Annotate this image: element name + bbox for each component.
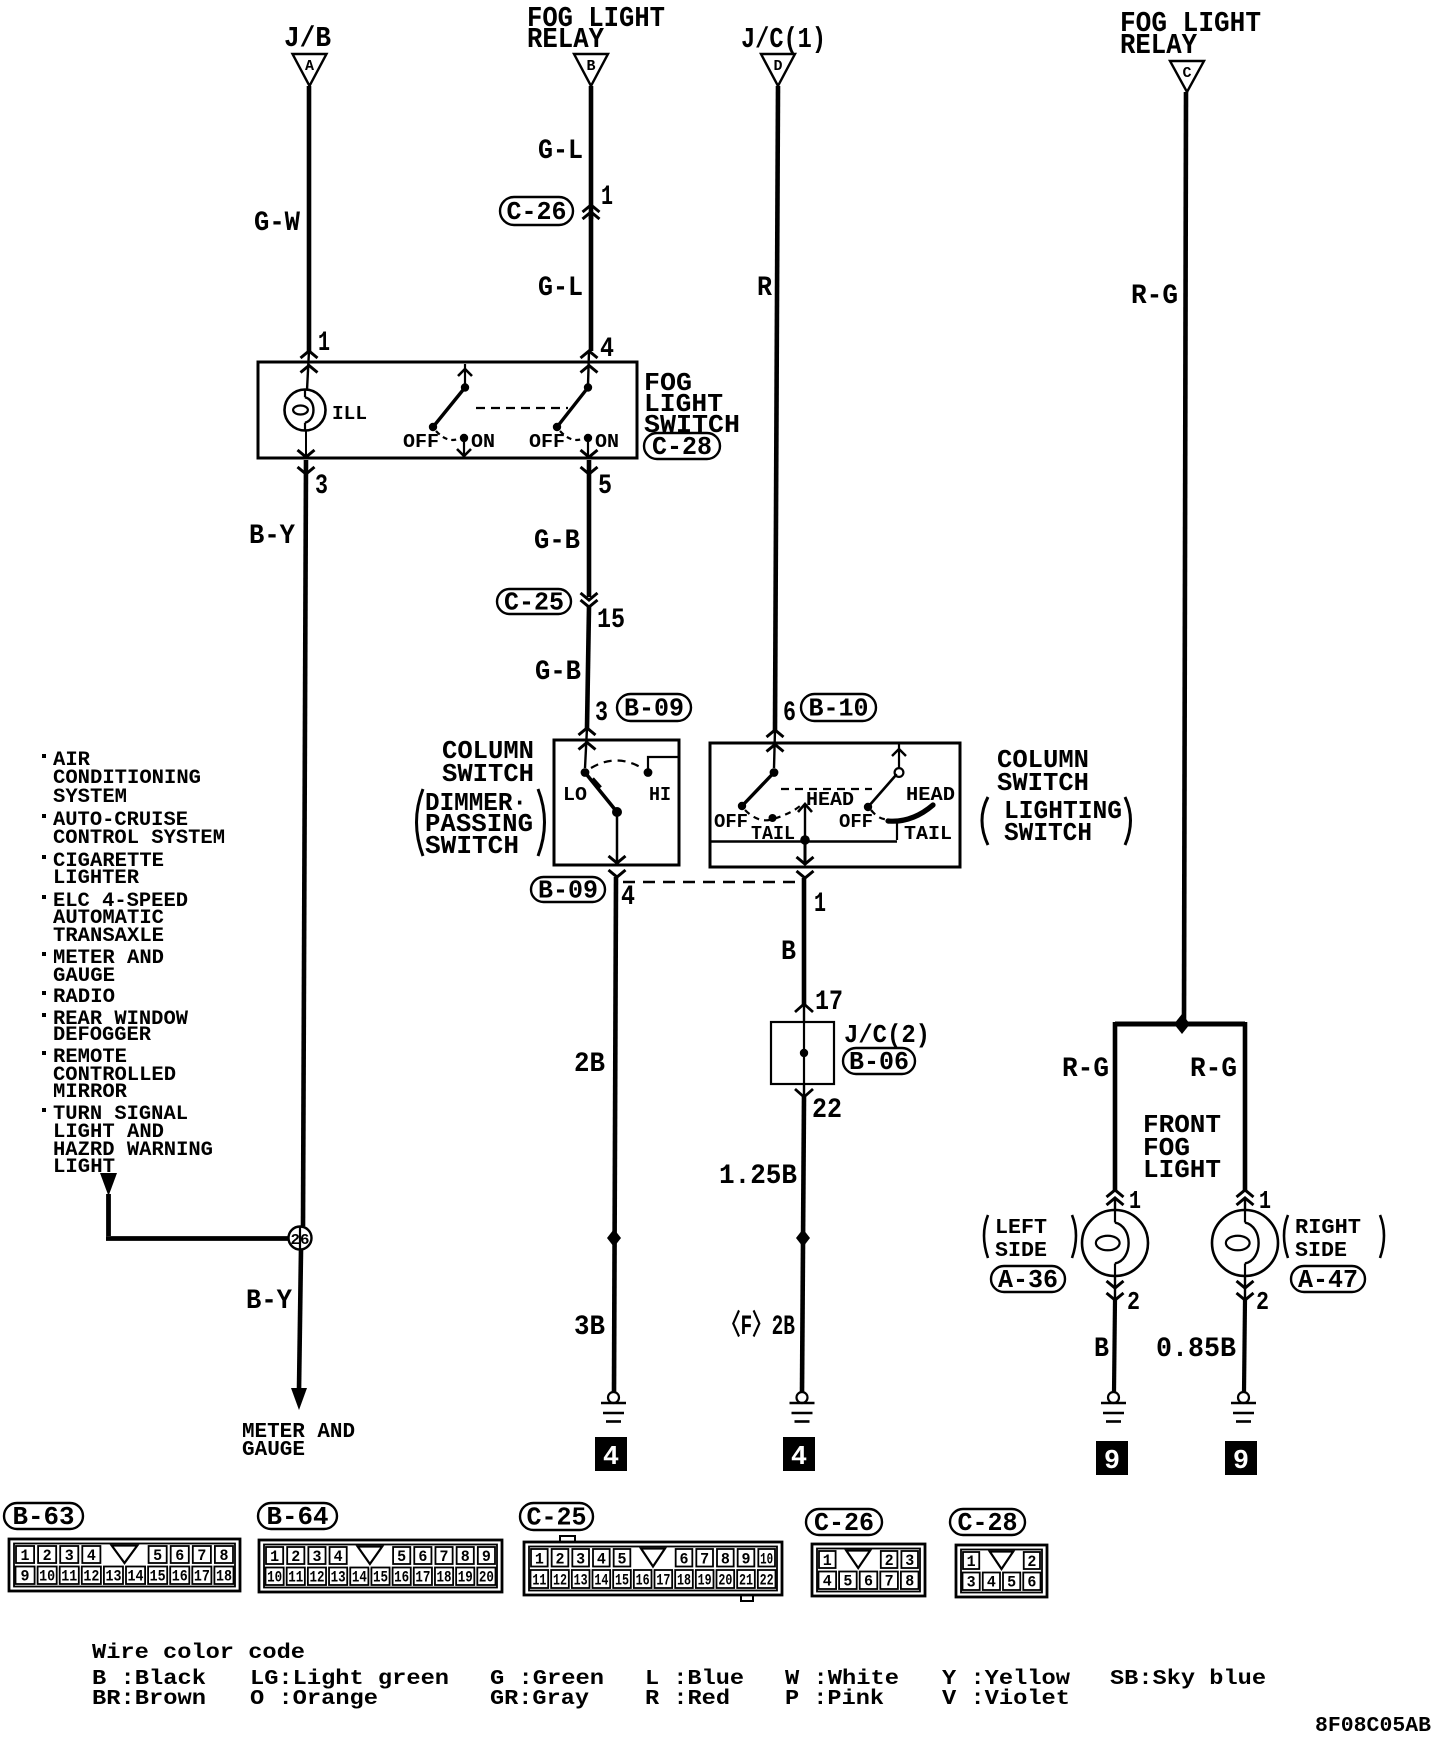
illumination lamp ILL bbox=[285, 390, 326, 431]
svg-text:SIDE: SIDE bbox=[995, 1240, 1047, 1263]
svg-text:7: 7 bbox=[440, 1548, 449, 1566]
svg-text:18: 18 bbox=[216, 1568, 232, 1586]
lighting right contact pivot (open) bbox=[895, 768, 904, 777]
bus line inside lighting switch bbox=[711, 840, 897, 842]
connector C-28 oval bbox=[644, 433, 720, 459]
svg-text:R-G: R-G bbox=[1062, 1054, 1109, 1085]
svg-text:C-28: C-28 bbox=[652, 432, 712, 462]
chevrons left fog light pin 2 bbox=[1114, 1276, 1116, 1300]
dashed link to right contact bbox=[781, 788, 872, 790]
svg-text:R: R bbox=[757, 273, 772, 304]
svg-text:18: 18 bbox=[437, 1569, 452, 1587]
svg-text:7: 7 bbox=[197, 1547, 206, 1565]
svg-text:HEAD: HEAD bbox=[906, 784, 955, 806]
dashed link between contacts bbox=[476, 407, 568, 409]
right contact drop to bus bbox=[896, 819, 898, 840]
svg-text:15: 15 bbox=[597, 605, 625, 636]
svg-text:2: 2 bbox=[1027, 1553, 1036, 1571]
svg-text:A-47: A-47 bbox=[1298, 1265, 1358, 1295]
svg-text:6: 6 bbox=[1027, 1574, 1036, 1592]
connector A-36 oval bbox=[991, 1266, 1065, 1292]
svg-text:7: 7 bbox=[700, 1551, 709, 1569]
svg-text:6: 6 bbox=[175, 1547, 184, 1565]
svg-text:G-W: G-W bbox=[254, 208, 300, 239]
svg-text:1: 1 bbox=[967, 1553, 976, 1571]
svg-text:13: 13 bbox=[331, 1569, 346, 1587]
svg-text:2B: 2B bbox=[574, 1049, 605, 1080]
svg-text:6: 6 bbox=[783, 698, 796, 729]
svg-text:C-28: C-28 bbox=[958, 1508, 1018, 1538]
left fog light bulb bbox=[1114, 1198, 1116, 1211]
svg-text:8F08C05AB: 8F08C05AB bbox=[1315, 1715, 1431, 1736]
switch contact 2 bbox=[584, 383, 592, 391]
svg-text:3B: 3B bbox=[574, 1312, 605, 1343]
big parens lighting bbox=[982, 797, 988, 845]
svg-text:HEAD: HEAD bbox=[806, 789, 854, 811]
svg-text:3: 3 bbox=[967, 1574, 976, 1592]
svg-text:Wire color code: Wire color code bbox=[92, 1642, 305, 1665]
svg-text:ILL: ILL bbox=[332, 403, 367, 425]
connector C-28 pinout block bbox=[956, 1545, 1047, 1597]
svg-text:OFF: OFF bbox=[839, 811, 873, 833]
branch junction dot bbox=[1174, 1014, 1190, 1034]
wire D from J/C(1) to lighting switch bbox=[775, 86, 778, 730]
dashed arc OFF-TAIL-HEAD left bbox=[745, 806, 800, 820]
junction dot on wire D bbox=[796, 1229, 810, 1247]
ground symbol wire B bbox=[608, 1392, 619, 1403]
svg-text:B: B bbox=[1094, 1334, 1109, 1365]
svg-text:B-10: B-10 bbox=[809, 694, 869, 724]
svg-text:17: 17 bbox=[656, 1572, 670, 1590]
arrowhead to meter and gauge bbox=[291, 1388, 307, 1410]
svg-text:1: 1 bbox=[1259, 1186, 1271, 1216]
wire A (B-Y) down to junction 26 bbox=[303, 460, 306, 1226]
connector A-47 oval bbox=[1291, 1266, 1365, 1292]
junction block J/C(2) bbox=[771, 1022, 834, 1084]
ground ref black box 9 (left) bbox=[1096, 1441, 1128, 1475]
svg-text:C-26: C-26 bbox=[507, 197, 567, 227]
svg-text:11: 11 bbox=[61, 1568, 77, 1586]
svg-text:SWITCH: SWITCH bbox=[997, 768, 1089, 798]
chevron out of J/C(2) bbox=[795, 1089, 813, 1097]
svg-text:RADIO: RADIO bbox=[53, 986, 115, 1009]
svg-text:9: 9 bbox=[482, 1548, 491, 1566]
svg-text:19: 19 bbox=[458, 1569, 473, 1587]
svg-text:SB:Sky blue: SB:Sky blue bbox=[1110, 1668, 1266, 1691]
svg-text:B-Y: B-Y bbox=[246, 1286, 292, 1317]
svg-text:LEFT: LEFT bbox=[995, 1217, 1047, 1240]
svg-text:6: 6 bbox=[864, 1573, 873, 1591]
column switch dimmer-passing box bbox=[554, 740, 679, 865]
connector B-63 pinout block bbox=[9, 1539, 240, 1591]
svg-text:18: 18 bbox=[677, 1572, 691, 1590]
chevrons right fog light pin 2 bbox=[1244, 1276, 1246, 1300]
svg-text:MIRROR: MIRROR bbox=[53, 1081, 127, 1104]
svg-text:1: 1 bbox=[814, 889, 826, 920]
svg-text:1: 1 bbox=[1129, 1186, 1141, 1216]
svg-text:RELAY: RELAY bbox=[1120, 29, 1198, 62]
svg-text:14: 14 bbox=[352, 1569, 367, 1587]
ground symbol right fog bbox=[1238, 1392, 1249, 1403]
wire A from J/B to fog light switch bbox=[307, 86, 312, 351]
svg-text:14: 14 bbox=[594, 1572, 608, 1590]
switch contact 1 (with arrow) bbox=[464, 364, 466, 385]
fog light switch box bbox=[258, 362, 637, 458]
connector chevrons pin 5 bbox=[581, 450, 598, 457]
svg-text:2: 2 bbox=[291, 1548, 300, 1566]
svg-text:R-G: R-G bbox=[1131, 281, 1178, 312]
svg-text:BR:Brown: BR:Brown bbox=[92, 1688, 206, 1711]
svg-text:5: 5 bbox=[618, 1551, 627, 1569]
svg-text:GAUGE: GAUGE bbox=[242, 1439, 305, 1462]
dimmer common exit wire bbox=[616, 812, 619, 863]
ground symbol wire D bbox=[797, 1392, 808, 1403]
junction circle 26 bbox=[289, 1227, 312, 1250]
svg-text:3: 3 bbox=[905, 1552, 914, 1570]
svg-text:16: 16 bbox=[636, 1572, 650, 1590]
junction dot on wire B bbox=[607, 1229, 621, 1247]
svg-text:GR:Gray: GR:Gray bbox=[490, 1688, 589, 1711]
svg-text:R-G: R-G bbox=[1190, 1054, 1237, 1085]
wire B from relay to C-26 bbox=[589, 86, 594, 205]
svg-text:10: 10 bbox=[39, 1568, 55, 1586]
svg-text:12: 12 bbox=[553, 1572, 567, 1590]
svg-text:15: 15 bbox=[615, 1572, 629, 1590]
svg-text:15: 15 bbox=[373, 1569, 388, 1587]
svg-text:ON: ON bbox=[595, 431, 619, 453]
connector triangle D bbox=[761, 54, 795, 86]
svg-text:B-64: B-64 bbox=[267, 1502, 329, 1532]
svg-text:4: 4 bbox=[334, 1548, 343, 1566]
svg-text:C-26: C-26 bbox=[814, 1508, 874, 1538]
svg-text:GAUGE: GAUGE bbox=[53, 965, 115, 988]
svg-text:C: C bbox=[1182, 65, 1191, 82]
connector C-28 label oval bbox=[950, 1509, 1025, 1535]
wire 2B to ground bbox=[614, 877, 616, 1392]
dimmer contact LO pivot and lever bbox=[581, 768, 590, 777]
svg-text:12: 12 bbox=[309, 1569, 324, 1587]
svg-text:OFF: OFF bbox=[403, 431, 439, 453]
svg-text:13: 13 bbox=[105, 1568, 121, 1586]
connector C-25 label oval bbox=[520, 1503, 593, 1530]
chevrons right fog light pin 1 bbox=[1237, 1190, 1254, 1197]
svg-text:6: 6 bbox=[418, 1548, 427, 1566]
svg-text:14: 14 bbox=[128, 1568, 144, 1586]
svg-text:1: 1 bbox=[270, 1548, 279, 1566]
svg-text:LO: LO bbox=[563, 784, 587, 806]
chevrons left fog light pin 1 bbox=[1107, 1190, 1124, 1197]
svg-text:8: 8 bbox=[721, 1551, 730, 1569]
svg-text:O :Orange: O :Orange bbox=[250, 1688, 378, 1711]
dashed arc LO to HI bbox=[591, 761, 642, 769]
wire 1.25B bbox=[802, 1097, 804, 1392]
svg-text:SYSTEM: SYSTEM bbox=[53, 786, 127, 809]
svg-text:5: 5 bbox=[1007, 1574, 1016, 1592]
connector B-63 label oval bbox=[4, 1503, 83, 1529]
chevrons at C-25 bbox=[581, 593, 598, 600]
chevrons at C-26 bbox=[583, 205, 600, 212]
svg-text:LIGHT: LIGHT bbox=[1143, 1155, 1221, 1185]
branch horizontal to left and right fog lights bbox=[1115, 1022, 1245, 1027]
svg-text:5: 5 bbox=[153, 1547, 162, 1565]
svg-text:D: D bbox=[773, 58, 782, 75]
connector B-64 pinout block bbox=[259, 1540, 502, 1592]
connector triangle B bbox=[574, 54, 608, 86]
svg-text:B-63: B-63 bbox=[13, 1502, 75, 1532]
big parens dimmer bbox=[417, 789, 424, 856]
svg-text:11: 11 bbox=[288, 1569, 303, 1587]
svg-text:LIGHTER: LIGHTER bbox=[53, 867, 139, 890]
connector C-26 pinout block bbox=[812, 1544, 925, 1596]
svg-text:5: 5 bbox=[598, 471, 612, 502]
connector chevrons pin 1 bbox=[301, 351, 318, 358]
chevrons dimmer exit bbox=[609, 856, 626, 863]
svg-text:OFF: OFF bbox=[529, 431, 565, 453]
svg-text:4: 4 bbox=[791, 1443, 807, 1473]
svg-text:13: 13 bbox=[574, 1572, 588, 1590]
svg-text:22: 22 bbox=[760, 1572, 774, 1590]
svg-text:4: 4 bbox=[621, 882, 635, 913]
connector C-25 oval (inline) bbox=[497, 589, 571, 614]
svg-text:20: 20 bbox=[718, 1572, 732, 1590]
lighting common exit bbox=[804, 840, 807, 865]
svg-text:ON: ON bbox=[471, 431, 495, 453]
svg-text:6: 6 bbox=[680, 1551, 689, 1569]
svg-text:3: 3 bbox=[595, 698, 608, 729]
svg-text:9: 9 bbox=[742, 1551, 751, 1569]
wire B pin5 to C-25 bbox=[587, 460, 592, 597]
svg-text:3: 3 bbox=[315, 471, 328, 502]
svg-text:A: A bbox=[305, 58, 314, 75]
svg-text:3: 3 bbox=[65, 1547, 74, 1565]
left system list bbox=[42, 754, 46, 758]
chevrons lighting entry bbox=[767, 730, 784, 737]
svg-text:9: 9 bbox=[1233, 1447, 1249, 1477]
svg-text:5: 5 bbox=[843, 1573, 852, 1591]
svg-text:11: 11 bbox=[532, 1572, 546, 1590]
svg-text:2: 2 bbox=[885, 1552, 894, 1570]
svg-text:B-06: B-06 bbox=[849, 1047, 909, 1077]
svg-text:1.25B: 1.25B bbox=[719, 1161, 797, 1192]
wire B (black) to J/C(2) bbox=[802, 878, 807, 1005]
svg-text:〈F〉2B: 〈F〉2B bbox=[721, 1309, 795, 1343]
svg-text:C-25: C-25 bbox=[504, 588, 564, 618]
wire B to ground left fog bbox=[1114, 1300, 1115, 1392]
svg-text:P :Pink: P :Pink bbox=[785, 1688, 884, 1711]
connector C-26 oval (inline) bbox=[500, 197, 573, 225]
svg-text:SWITCH: SWITCH bbox=[1004, 818, 1092, 848]
svg-text:OFF: OFF bbox=[714, 811, 748, 833]
connector B-64 label oval bbox=[258, 1503, 337, 1529]
svg-text:20: 20 bbox=[479, 1569, 494, 1587]
svg-text:J/C(1): J/C(1) bbox=[741, 23, 826, 56]
chevrons dimmer entry bbox=[579, 728, 596, 735]
ground symbol left fog bbox=[1108, 1392, 1119, 1403]
connector chevrons pin 3 bbox=[298, 450, 315, 457]
svg-text:9: 9 bbox=[21, 1568, 30, 1586]
svg-text:10: 10 bbox=[760, 1551, 773, 1569]
svg-text:17: 17 bbox=[415, 1569, 430, 1587]
svg-text:12: 12 bbox=[83, 1568, 99, 1586]
svg-text:0.85B: 0.85B bbox=[1156, 1334, 1236, 1365]
chevron into J/C(2) bbox=[795, 1004, 813, 1012]
connector triangle A bbox=[293, 54, 327, 86]
svg-text:3: 3 bbox=[576, 1551, 585, 1569]
svg-text:22: 22 bbox=[812, 1095, 842, 1126]
svg-text:J/C(2): J/C(2) bbox=[844, 1020, 930, 1050]
svg-text:B-Y: B-Y bbox=[249, 521, 295, 552]
svg-text:1: 1 bbox=[601, 182, 613, 213]
svg-text:TAIL: TAIL bbox=[904, 823, 952, 845]
svg-text:4: 4 bbox=[603, 1443, 619, 1473]
svg-text:J/B: J/B bbox=[284, 22, 331, 55]
right fog light bulb bbox=[1244, 1198, 1246, 1211]
svg-text:V :Violet: V :Violet bbox=[942, 1688, 1070, 1711]
connector B-10 oval bbox=[801, 694, 876, 721]
ground ref black box 4 (right) bbox=[783, 1437, 815, 1471]
svg-text:4: 4 bbox=[987, 1574, 996, 1592]
connector B-09 oval lower bbox=[531, 877, 605, 902]
bold lever TAIL right bbox=[888, 805, 933, 821]
svg-text:2: 2 bbox=[43, 1547, 52, 1565]
ground ref black box 9 (right) bbox=[1225, 1441, 1257, 1475]
connector C-25 pinout block bbox=[524, 1542, 782, 1595]
svg-text:B-09: B-09 bbox=[538, 876, 598, 906]
svg-text:8: 8 bbox=[219, 1547, 228, 1565]
svg-text:1: 1 bbox=[823, 1552, 832, 1570]
svg-text:B-09: B-09 bbox=[624, 694, 684, 724]
svg-text:1: 1 bbox=[535, 1551, 544, 1569]
svg-text:15: 15 bbox=[150, 1568, 166, 1586]
column switch lighting box bbox=[710, 743, 960, 867]
svg-text:C-25: C-25 bbox=[527, 1503, 587, 1533]
svg-text:B: B bbox=[586, 58, 595, 75]
arrow to list (filled triangle) and link wire to junction 26 bbox=[100, 1173, 117, 1196]
chevrons lighting exit bbox=[797, 857, 814, 864]
svg-text:2: 2 bbox=[1127, 1287, 1140, 1317]
svg-text:CONTROL SYSTEM: CONTROL SYSTEM bbox=[53, 827, 225, 850]
svg-text:3: 3 bbox=[312, 1548, 321, 1566]
svg-text:8: 8 bbox=[461, 1548, 470, 1566]
svg-text:RIGHT: RIGHT bbox=[1295, 1217, 1361, 1240]
svg-text:5: 5 bbox=[397, 1548, 406, 1566]
svg-text:10: 10 bbox=[267, 1569, 282, 1587]
ground ref black box 4 (left) bbox=[595, 1437, 627, 1471]
wire A below junction 26 bbox=[299, 1250, 301, 1390]
wire C from fog light relay down bbox=[1184, 92, 1186, 1024]
svg-text:4: 4 bbox=[600, 334, 614, 365]
svg-text:DEFOGGER: DEFOGGER bbox=[53, 1024, 151, 1047]
bus junction dot bbox=[800, 835, 810, 845]
svg-text:19: 19 bbox=[698, 1572, 712, 1590]
svg-text:SIDE: SIDE bbox=[1295, 1240, 1347, 1263]
svg-text:8: 8 bbox=[905, 1573, 914, 1591]
svg-text:TRANSAXLE: TRANSAXLE bbox=[53, 925, 164, 948]
svg-text:4: 4 bbox=[823, 1573, 832, 1591]
lighting left contact pivot and lever bbox=[770, 768, 779, 777]
svg-text:4: 4 bbox=[597, 1551, 606, 1569]
svg-text:RELAY: RELAY bbox=[527, 23, 605, 56]
svg-text:G-L: G-L bbox=[538, 136, 583, 167]
wire 0.85B to ground right fog bbox=[1244, 1300, 1245, 1392]
svg-text:R :Red: R :Red bbox=[645, 1688, 730, 1711]
svg-text:1: 1 bbox=[21, 1547, 30, 1565]
connector triangle C bbox=[1170, 61, 1204, 92]
svg-text:SWITCH: SWITCH bbox=[442, 759, 534, 789]
connector C-26 label oval bbox=[806, 1509, 882, 1535]
svg-text:G-L: G-L bbox=[538, 273, 583, 304]
dashed mechanical link line bbox=[623, 881, 800, 883]
dashed arc right bbox=[871, 810, 889, 819]
svg-text:2: 2 bbox=[1256, 1287, 1269, 1317]
svg-text:SWITCH: SWITCH bbox=[425, 831, 519, 861]
svg-text:21: 21 bbox=[739, 1572, 753, 1590]
connector B-06 oval bbox=[843, 1048, 915, 1074]
svg-text:2: 2 bbox=[556, 1551, 565, 1569]
svg-text:A-36: A-36 bbox=[998, 1265, 1058, 1295]
svg-text:17: 17 bbox=[194, 1568, 210, 1586]
svg-text:16: 16 bbox=[394, 1569, 409, 1587]
svg-text:1: 1 bbox=[318, 328, 330, 359]
wire B from C-26 to switch bbox=[589, 212, 594, 351]
svg-text:G-B: G-B bbox=[534, 526, 580, 557]
HEAD contact arrow to bus bbox=[804, 806, 806, 840]
svg-text:B: B bbox=[781, 937, 796, 968]
svg-text:26: 26 bbox=[291, 1232, 310, 1249]
svg-text:4: 4 bbox=[87, 1547, 96, 1565]
svg-text:G-B: G-B bbox=[535, 657, 581, 688]
svg-text:HI: HI bbox=[649, 784, 671, 806]
svg-text:7: 7 bbox=[885, 1573, 894, 1591]
svg-text:16: 16 bbox=[172, 1568, 188, 1586]
HI contact bbox=[644, 768, 653, 777]
wire B from C-25 to column switch bbox=[587, 607, 589, 728]
svg-text:9: 9 bbox=[1104, 1447, 1120, 1477]
svg-text:17: 17 bbox=[815, 987, 843, 1018]
connector B-09 oval upper bbox=[617, 694, 691, 721]
connector chevrons pin 4 bbox=[581, 351, 598, 358]
